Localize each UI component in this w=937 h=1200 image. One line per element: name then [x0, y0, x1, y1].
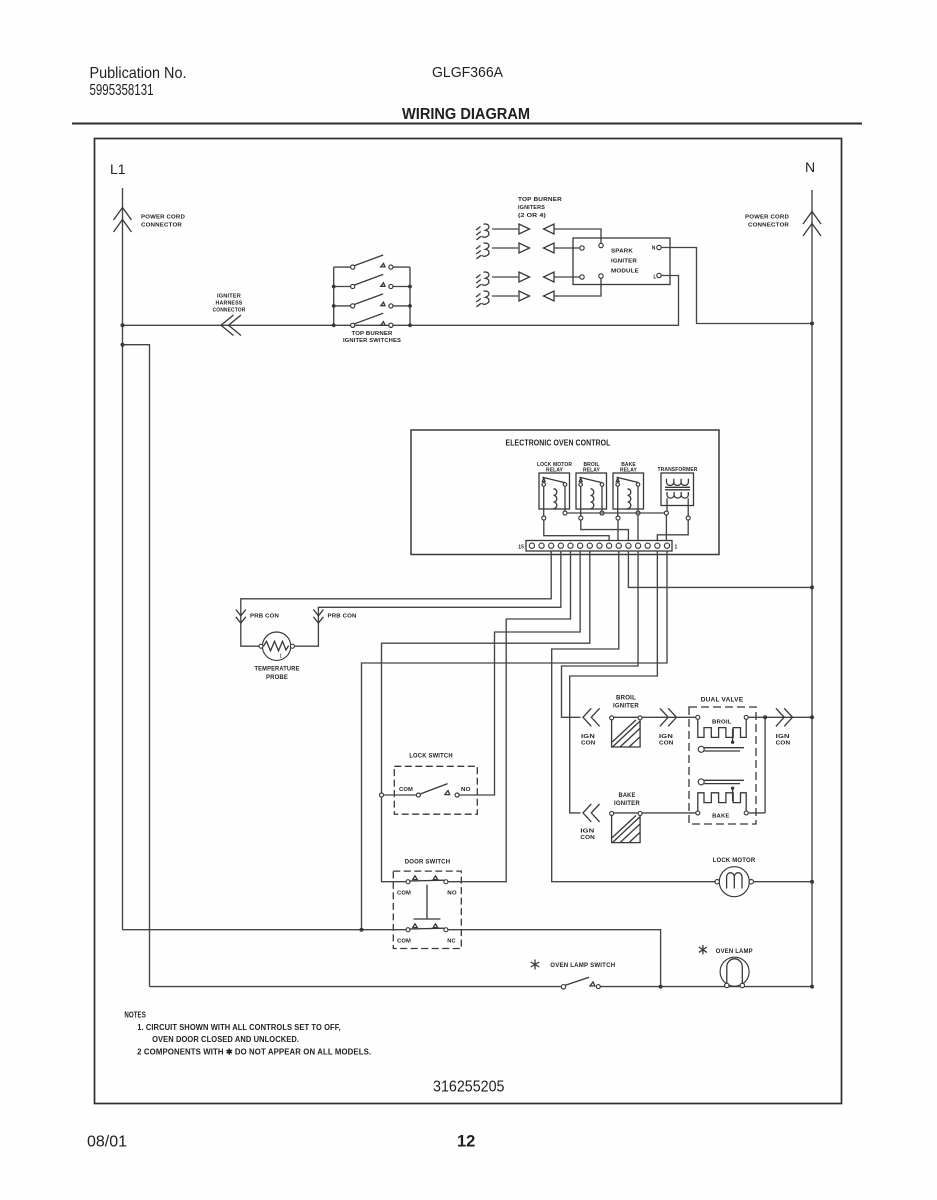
wire module N to N bus	[661, 248, 812, 324]
svg-text:L: L	[653, 275, 656, 281]
svg-text:POWER CORD: POWER CORD	[745, 215, 789, 221]
svg-text:IGN: IGN	[580, 828, 594, 834]
wire switch right bus	[409, 267, 411, 325]
wire switch left bus	[333, 267, 335, 325]
node junction L1/inner bus	[121, 343, 125, 347]
svg-text:15: 15	[518, 545, 524, 551]
switch S4	[351, 323, 355, 327]
svg-text:IGN: IGN	[581, 734, 595, 740]
svg-text:SPARK: SPARK	[611, 249, 634, 255]
power cord connector (N)	[803, 212, 821, 237]
switch S2	[334, 286, 410, 288]
svg-text:WIRING DIAGRAM: WIRING DIAGRAM	[402, 106, 530, 123]
svg-text:L1: L1	[110, 161, 126, 177]
wire t2 to bake igniter row	[570, 551, 658, 813]
svg-text:IGNITER: IGNITER	[217, 294, 242, 300]
svg-text:PRB CON: PRB CON	[328, 614, 357, 620]
svg-text:1: 1	[675, 545, 678, 551]
transformer T1	[658, 467, 698, 520]
svg-text:BROIL: BROIL	[616, 695, 636, 702]
node N junction	[810, 322, 814, 326]
svg-text:TRANSFORMER: TRANSFORMER	[658, 467, 698, 473]
connector IGN CON broil right	[660, 708, 677, 726]
wire lock motor to N bus	[754, 881, 813, 883]
temperature probe RT1	[255, 632, 300, 681]
wire dual valve right side	[748, 717, 812, 813]
top burner igniter 4	[476, 279, 601, 307]
svg-text:GLGF366A: GLGF366A	[432, 64, 503, 81]
dual valve L1/L2	[689, 696, 756, 824]
top burner igniter switches block	[332, 255, 412, 344]
lock switch S5	[380, 753, 478, 815]
bake valve coil	[696, 811, 700, 815]
svg-text:IGNITER: IGNITER	[611, 259, 638, 265]
top burner igniter 1	[476, 224, 601, 243]
svg-text:BAKE: BAKE	[619, 792, 636, 799]
top burner igniter 3	[476, 272, 580, 288]
wire relay contact bus	[567, 512, 664, 514]
bake igniter E2	[580, 792, 695, 843]
wire transformer right to strip t2	[657, 520, 688, 540]
connector IGN CON right	[776, 708, 793, 726]
svg-text:N: N	[652, 246, 656, 252]
broil valve plunger	[698, 746, 704, 752]
wire N bus	[811, 190, 813, 987]
svg-text:PROBE: PROBE	[266, 674, 288, 681]
svg-text:IGNITER: IGNITER	[614, 800, 640, 807]
wire bake relay coil to strip t6	[617, 520, 619, 540]
svg-text:NC: NC	[447, 939, 456, 945]
svg-text:NOTES: NOTES	[124, 1011, 145, 1020]
svg-text:Publication No.: Publication No.	[90, 65, 187, 82]
svg-text:TOP BURNER: TOP BURNER	[352, 331, 394, 337]
wire lock relay coil to strip t7	[544, 520, 609, 540]
svg-text:LOCK SWITCH: LOCK SWITCH	[409, 753, 453, 760]
svg-text:OVEN LAMP SWITCH: OVEN LAMP SWITCH	[550, 962, 615, 969]
spark igniter module U1	[573, 238, 670, 285]
switch S3	[334, 305, 410, 307]
door switch mechanical link	[414, 885, 441, 919]
wire t4 to broil igniter row	[562, 551, 639, 717]
wire t9 to lock/door switch COM bus	[382, 551, 590, 882]
svg-text:COM: COM	[397, 939, 411, 945]
svg-text:OVEN DOOR CLOSED AND UNLOC: OVEN DOOR CLOSED AND UNLOCKED.	[152, 1035, 299, 1044]
node N bus junction	[810, 585, 814, 589]
wire t11 to door switch NO	[448, 551, 571, 882]
svg-text:BAKE: BAKE	[712, 813, 729, 819]
svg-text:CON: CON	[776, 740, 791, 746]
wire t13 to probe connector left	[241, 551, 551, 646]
connector IGN CON broil left	[583, 708, 600, 726]
svg-text:IGN: IGN	[776, 734, 790, 740]
wire L1 bus to door switch bottom COM	[123, 929, 407, 931]
relay K2 broil relay	[576, 462, 607, 520]
svg-text:NO: NO	[461, 787, 471, 793]
svg-text:2 COMPONENTS WITH ✱ DO N: 2 COMPONENTS WITH ✱ DO NOT APPEAR ON ALL…	[137, 1047, 371, 1056]
wire module L to main row	[661, 276, 678, 326]
wire t5 to N bus	[628, 551, 812, 587]
oven lamp switch S7	[150, 960, 813, 990]
terminal strip P1	[518, 541, 677, 552]
wire L1 bus	[122, 188, 124, 930]
svg-text:316255205: 316255205	[433, 1079, 505, 1096]
broil igniter E1	[581, 695, 696, 748]
notes text	[124, 1011, 371, 1057]
oven lamp DS1	[699, 945, 753, 988]
svg-text:COM: COM	[397, 891, 411, 897]
svg-text:CONNECTOR: CONNECTOR	[748, 223, 790, 229]
svg-text:08/01: 08/01	[87, 1134, 127, 1151]
title rule	[72, 123, 862, 125]
relay K3 bake relay	[613, 462, 644, 520]
connector IGN CON bake left	[583, 804, 600, 822]
node junction bottom row	[360, 928, 364, 932]
svg-text:BROIL: BROIL	[712, 720, 732, 726]
svg-text:HARNESS: HARNESS	[216, 301, 243, 307]
svg-text:IGN: IGN	[659, 734, 673, 740]
svg-text:N: N	[805, 159, 815, 175]
node lamp row junction	[659, 985, 663, 989]
wire contact bus to strip t4	[637, 515, 639, 540]
svg-text:LOCK MOTOR: LOCK MOTOR	[713, 857, 756, 864]
connector PRB CON right	[313, 610, 323, 624]
connector PRB CON left	[236, 610, 246, 624]
top burner igniter 2	[476, 243, 580, 259]
broil valve coil	[696, 715, 700, 719]
svg-text:ELECTRONIC OVEN CONTROL: ELECTRONIC OVEN CONTROL	[506, 439, 611, 448]
wire door NC to oven lamp row	[448, 930, 661, 985]
wire main L1 row	[123, 324, 680, 326]
svg-text:TOP BURNER: TOP BURNER	[518, 197, 563, 203]
door switch S6	[393, 859, 461, 949]
svg-text:IGNITER: IGNITER	[613, 703, 639, 710]
svg-text:COM: COM	[399, 787, 413, 793]
svg-text:TEMPERATURE: TEMPERATURE	[255, 666, 300, 673]
wire t1 to door switch bottom row	[362, 551, 668, 928]
svg-text:(2 OR 4): (2 OR 4)	[518, 213, 546, 219]
lock motor M1	[713, 857, 756, 897]
electronic oven control box	[411, 430, 719, 555]
svg-text:CON: CON	[580, 835, 595, 841]
svg-text:IGNITER SWITCHES: IGNITER SWITCHES	[343, 338, 401, 344]
node junction L1/main row	[121, 323, 125, 327]
svg-text:DUAL VALVE: DUAL VALVE	[701, 696, 744, 703]
relay K1 lock motor relay	[537, 462, 572, 520]
diagram border frame	[95, 139, 842, 1104]
svg-text:PRB CON: PRB CON	[250, 614, 279, 620]
svg-text:CON: CON	[581, 740, 596, 746]
bake valve plunger	[698, 779, 704, 785]
wire t12 to probe connector right	[294, 551, 560, 646]
wire t10 to lock switch NO	[459, 551, 580, 795]
svg-text:DOOR SWITCH: DOOR SWITCH	[405, 859, 451, 866]
svg-text:12: 12	[457, 1133, 475, 1151]
wire transformer left to strip t1	[665, 515, 667, 540]
wire inner-left bus feed	[123, 345, 150, 987]
wire broil relay coil to strip t5	[581, 520, 629, 540]
svg-text:CONNECTOR: CONNECTOR	[141, 223, 183, 229]
svg-text:5995358131: 5995358131	[90, 82, 154, 99]
svg-text:CON: CON	[659, 740, 674, 746]
svg-text:POWER CORD: POWER CORD	[141, 215, 185, 221]
svg-text:OVEN LAMP: OVEN LAMP	[716, 948, 753, 955]
svg-text:CONNECTOR: CONNECTOR	[213, 308, 247, 314]
svg-text:MODULE: MODULE	[611, 269, 639, 275]
svg-text:IGNITERS: IGNITERS	[518, 205, 545, 211]
wire t6 to lock motor	[552, 551, 715, 882]
switch S1	[334, 266, 410, 268]
igniter harness connector	[221, 315, 241, 336]
node bus junctions	[332, 285, 336, 289]
svg-text:1. CIRCUIT SHOWN WITH ALL: 1. CIRCUIT SHOWN WITH ALL CONTROLS SET T…	[137, 1023, 341, 1032]
svg-text:NO: NO	[447, 891, 457, 897]
power cord connector (L1)	[114, 208, 132, 233]
